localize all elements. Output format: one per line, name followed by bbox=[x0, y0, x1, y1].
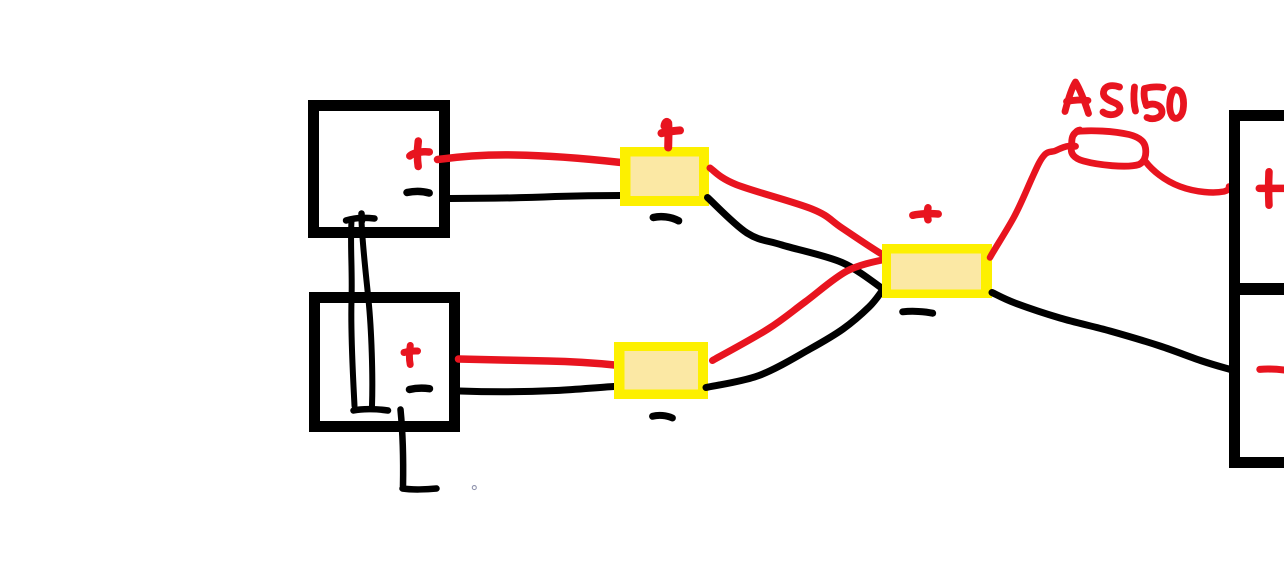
connector J3 plus mark + bbox=[913, 208, 938, 220]
series link foot inside B2 bbox=[354, 409, 389, 410]
series link T-mark inside B1 bbox=[346, 214, 375, 222]
letter S bbox=[1103, 86, 1120, 115]
battery B1 positive mark + bbox=[410, 141, 430, 167]
AS150 loop start tick bbox=[1075, 130, 1081, 134]
wire black J3 to load box - bbox=[992, 293, 1232, 371]
load box divider bbox=[1234, 283, 1284, 295]
series link wire 2 (B1 to B2) bbox=[362, 221, 373, 406]
battery B2 (bottom-left box) bbox=[315, 298, 455, 427]
wire black J1 to combiner J3 bbox=[708, 198, 884, 290]
load box positive mark + bbox=[1259, 172, 1284, 205]
wire red B1+ to connector J1 bbox=[438, 155, 622, 163]
label AS150 bbox=[1065, 82, 1184, 119]
connector J1 plus mark + bbox=[662, 122, 681, 148]
AS150 connector loop bbox=[1071, 131, 1145, 166]
wire black B2- to connector J2 bbox=[460, 387, 615, 392]
battery B2 positive mark + bbox=[404, 346, 418, 365]
hook foot below B2 bbox=[403, 485, 437, 492]
digit 1 bbox=[1134, 87, 1136, 111]
connector J3 minus mark - bbox=[903, 311, 933, 313]
connector J3 (center yellow combiner) outer bbox=[882, 244, 992, 298]
connector J1 minus mark - bbox=[653, 217, 678, 221]
letter A bbox=[1065, 82, 1089, 114]
wire red J3 to AS150 loop bbox=[990, 146, 1069, 258]
wire red J2 to combiner J3 bbox=[713, 259, 890, 361]
wire red J1 to combiner J3 bbox=[710, 168, 890, 259]
connector J2 minus mark - bbox=[653, 415, 673, 418]
load box negative mark - bbox=[1260, 369, 1284, 371]
connector J1 inner pad bbox=[631, 157, 700, 197]
digit 5 bbox=[1145, 87, 1164, 89]
load box (right) bbox=[1235, 116, 1284, 463]
connector J1 (top yellow) outer bbox=[620, 147, 709, 206]
digit 0 bbox=[1170, 90, 1184, 119]
connector J3 inner pad bbox=[891, 254, 981, 290]
connector J2 inner pad bbox=[625, 351, 699, 390]
battery B1 negative mark - bbox=[407, 191, 429, 193]
wire black B1- to connector J1 bbox=[450, 196, 621, 199]
wire red AS150 loop to load box + bbox=[1146, 162, 1230, 193]
battery B2 negative mark - bbox=[410, 388, 430, 389]
wire red B2+ to connector J2 bbox=[459, 359, 615, 365]
battery B1 (top-left box) bbox=[314, 106, 445, 233]
wire black B2 drain down to hook bbox=[401, 410, 404, 487]
stray dot bbox=[472, 486, 476, 490]
series link wire 1 (B1 to B2) bbox=[351, 221, 354, 406]
wire black J2 to combiner J3 bbox=[706, 291, 882, 388]
connector J2 (bottom yellow) outer bbox=[614, 342, 708, 399]
